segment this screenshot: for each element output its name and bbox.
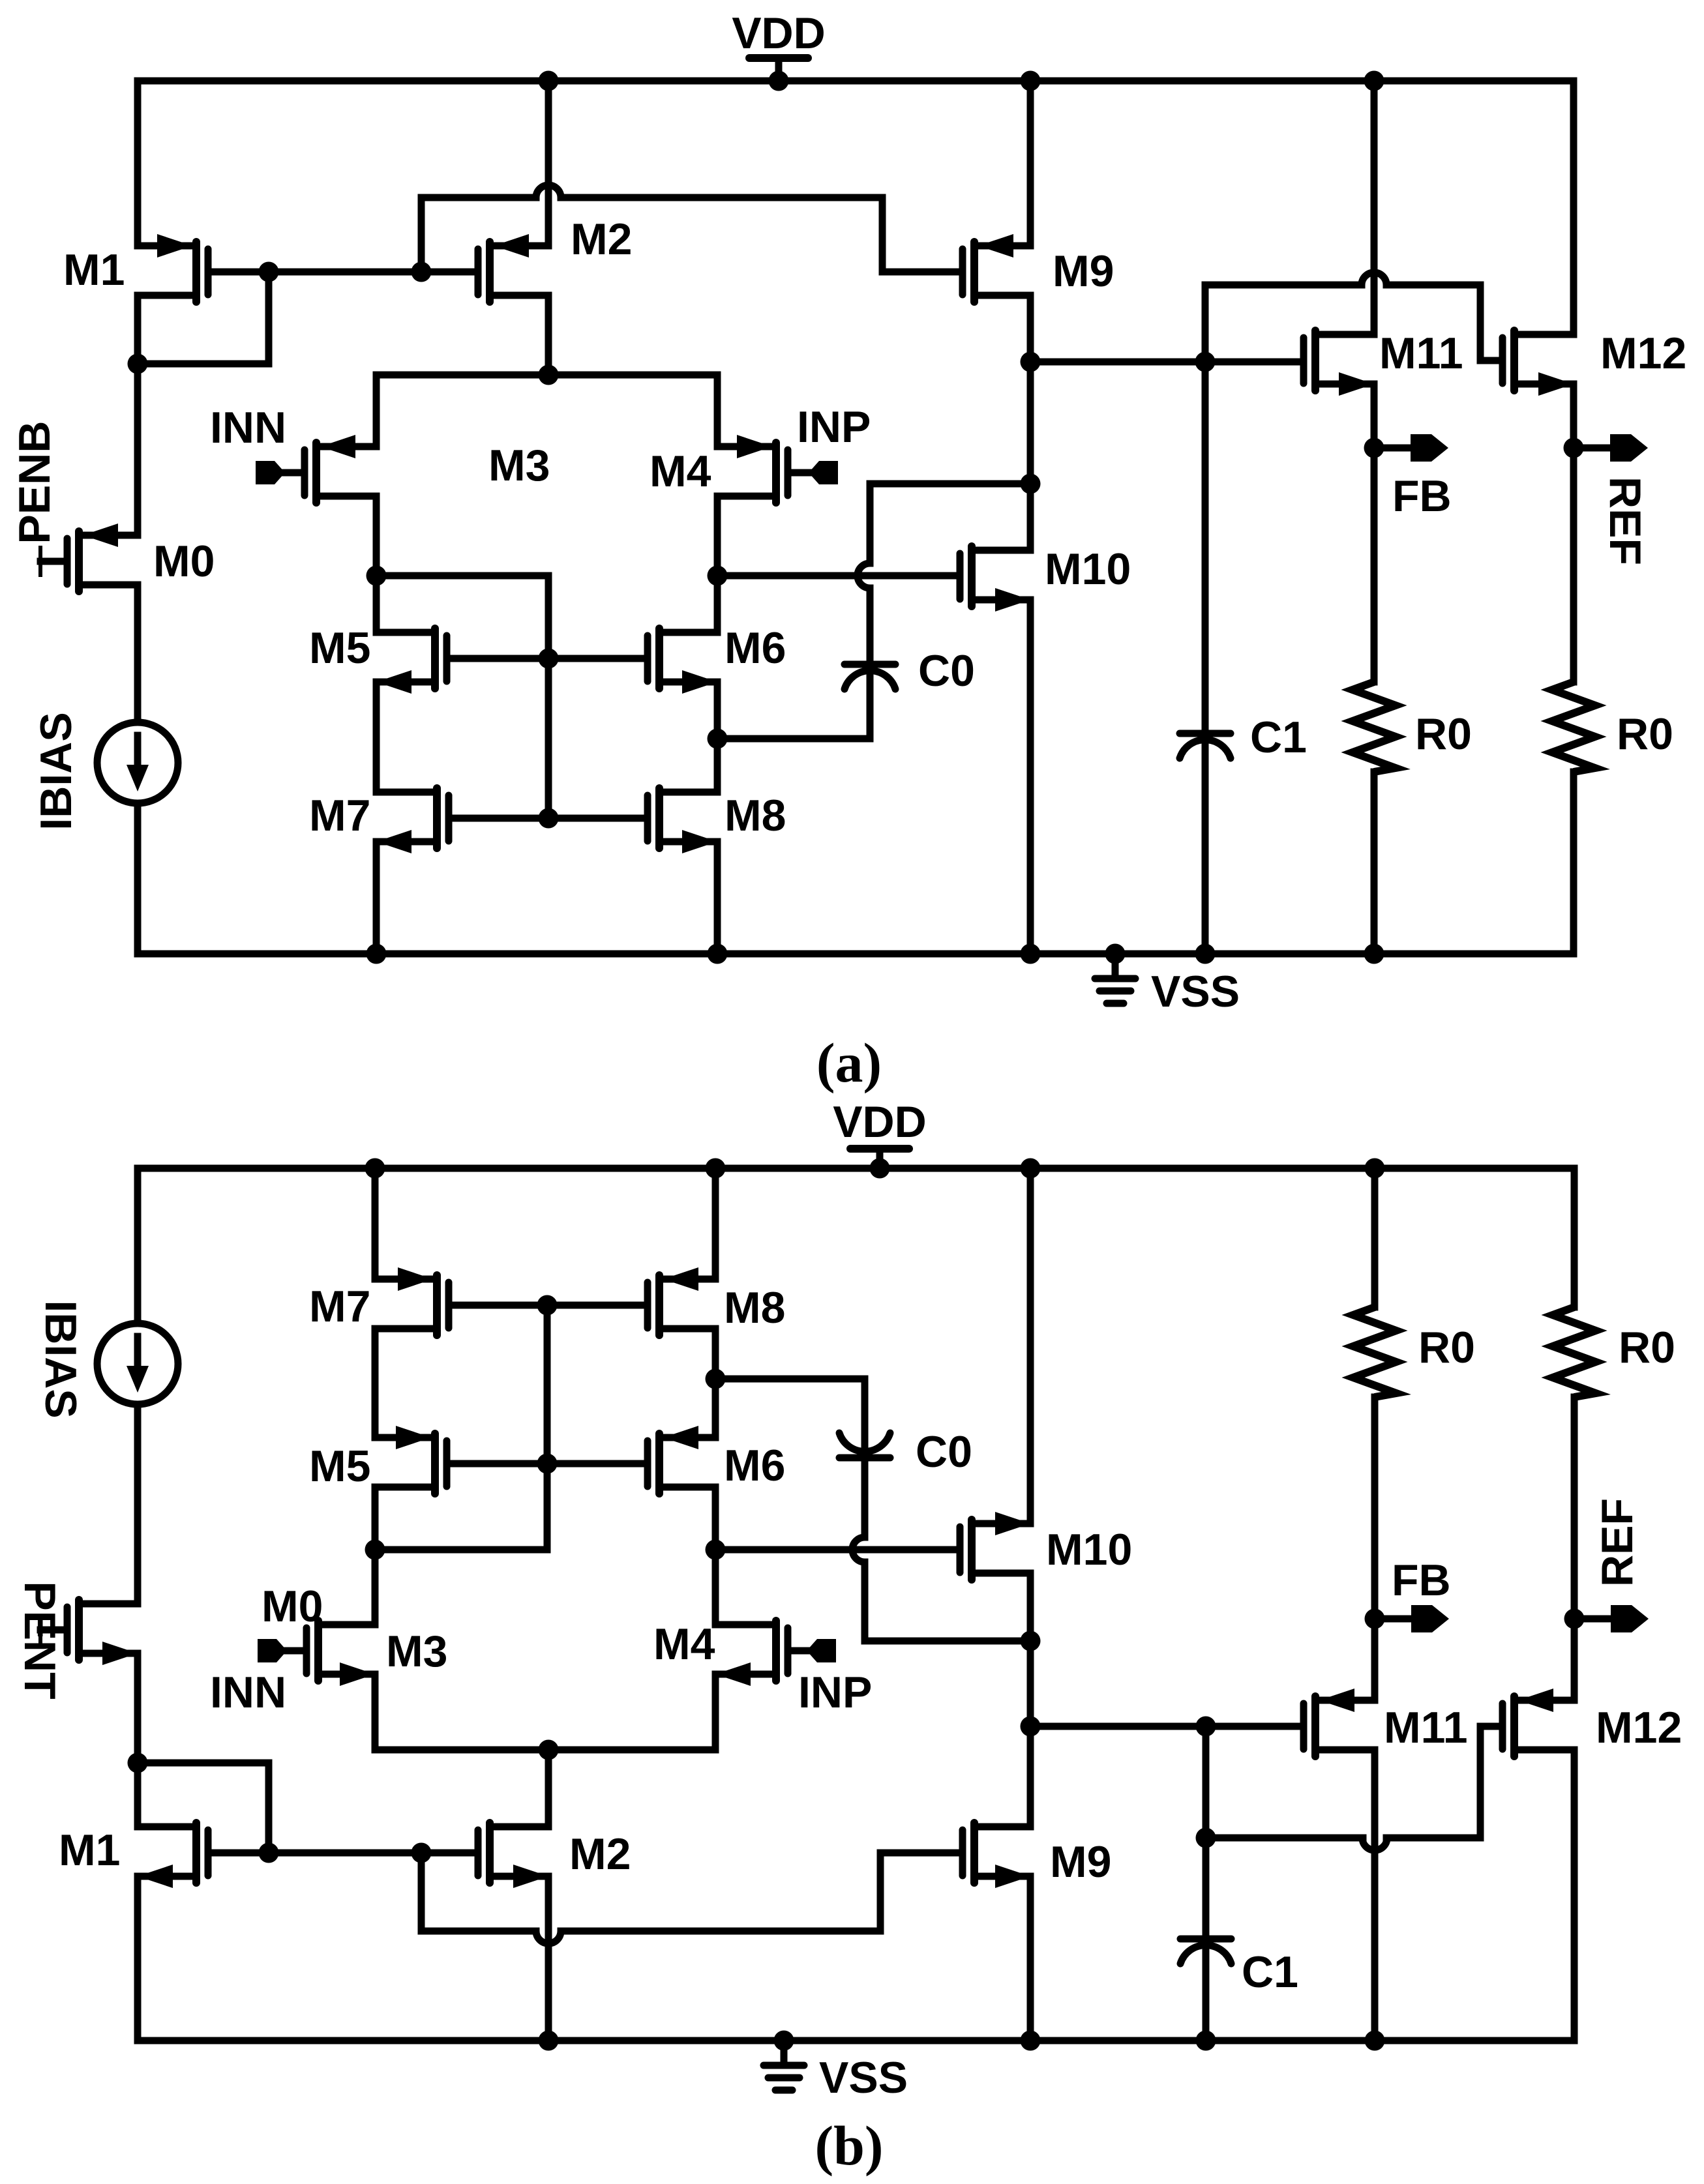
capacitor C1 (b) bottom lead bbox=[1196, 1947, 1216, 2051]
wire M11 drain to VSS (b) bbox=[1365, 1750, 1385, 2051]
wire M7-M8 gate line (b) bbox=[453, 1302, 644, 1309]
node M7-M8 gates (b) bbox=[537, 1295, 558, 1316]
svg-text:R0: R0 bbox=[1619, 1323, 1675, 1372]
svg-text:M11: M11 bbox=[1379, 329, 1463, 378]
svg-text:M0: M0 bbox=[262, 1582, 323, 1631]
wire M0 drain to IBIAS bbox=[134, 585, 142, 722]
node REF (a) bbox=[1564, 438, 1584, 458]
wire M3 drain to M5 drain bbox=[373, 496, 380, 632]
transistor M12 bbox=[1502, 331, 1574, 396]
wire M12 gate run left bbox=[1205, 282, 1362, 289]
svg-text:M3: M3 bbox=[386, 1627, 447, 1676]
node tail bbox=[539, 365, 559, 385]
svg-text:VDD: VDD bbox=[833, 1097, 927, 1147]
label M9 (b) bbox=[1050, 1837, 1111, 1887]
capacitor C1 (a) top lead bbox=[1202, 362, 1209, 730]
wire M10 drain column (b) bbox=[1027, 1573, 1034, 1827]
transistor M11 bbox=[1304, 331, 1374, 396]
resistor R0 REF (a) top lead bbox=[1570, 448, 1577, 682]
wire M7 source from VDD (b) bbox=[365, 1158, 385, 1280]
svg-text:PENB: PENB bbox=[10, 421, 59, 544]
capacitor C1 (a) bbox=[1180, 733, 1231, 758]
pin REF (a) bbox=[1574, 434, 1648, 462]
wire M2 gate stub (b) bbox=[421, 1850, 474, 1857]
wire M4 drain to M6 drain (b) bbox=[712, 1487, 719, 1625]
wire M9 source from VDD bbox=[1021, 71, 1041, 246]
svg-text:M1: M1 bbox=[63, 245, 125, 295]
wire M6 source to M8 drain (b) bbox=[712, 1329, 719, 1438]
svg-text:INP: INP bbox=[798, 1668, 872, 1717]
wire M1 gate (b) bbox=[212, 1850, 269, 1857]
pin FB (b) bbox=[1375, 1605, 1449, 1632]
svg-text:FB: FB bbox=[1392, 471, 1452, 521]
wire M12 source from REF (b) bbox=[1571, 1619, 1578, 1700]
wire hop over M11 drain bbox=[1362, 273, 1386, 285]
resistor R0 FB (b) top lead bbox=[1365, 1158, 1385, 1308]
svg-text:(a): (a) bbox=[816, 1031, 882, 1094]
wire tail line bbox=[376, 372, 717, 379]
label VDD (a) bbox=[732, 8, 826, 58]
label VSS (a) bbox=[1151, 967, 1240, 1016]
wire node A to M11 gate (b) bbox=[1030, 1723, 1300, 1730]
label INN (a) bbox=[210, 403, 286, 452]
svg-text:M4: M4 bbox=[653, 1619, 715, 1669]
transistor M5 bbox=[376, 628, 447, 694]
wire M1 drain to M0 source bbox=[134, 364, 142, 535]
wire gate chain (b) bbox=[544, 1305, 551, 1464]
svg-text:VSS: VSS bbox=[1151, 967, 1240, 1016]
label M10 (b) bbox=[1046, 1525, 1132, 1574]
wire IBIAS to VSS bbox=[134, 803, 142, 954]
wire M3 gate stub bbox=[285, 469, 301, 477]
svg-text:R0: R0 bbox=[1418, 1323, 1475, 1372]
label C0 (a) bbox=[918, 646, 975, 696]
svg-text:VDD: VDD bbox=[732, 8, 826, 58]
wire M2 source to VSS (b) bbox=[539, 1876, 559, 2051]
wire M12 gate stub bbox=[1480, 357, 1499, 364]
wire VDD rail (b) bbox=[138, 1165, 1574, 1172]
transistor M9 (b) bbox=[963, 1823, 1030, 1888]
svg-text:M12: M12 bbox=[1596, 1703, 1682, 1752]
svg-text:M12: M12 bbox=[1600, 329, 1686, 378]
wire hop over M2 source bbox=[536, 185, 561, 198]
wire gate bus M1-M2 (b) bbox=[269, 1850, 421, 1857]
wire gate bus dropper (b) bbox=[418, 1853, 425, 1931]
terminal PENT T-bar bbox=[38, 1616, 42, 1644]
resistor R0 REF (b) bbox=[1553, 1307, 1596, 1397]
wire first-stage jog bbox=[376, 576, 548, 658]
label C1 (a) bbox=[1250, 713, 1307, 762]
label M3 (b) bbox=[386, 1627, 447, 1676]
svg-text:C0: C0 bbox=[916, 1427, 972, 1477]
wire gate bus rise to M9 (b) bbox=[877, 1853, 884, 1931]
label M10 bbox=[1045, 544, 1131, 594]
svg-text:C0: C0 bbox=[918, 646, 975, 696]
capacitor C1 (a) bottom lead bbox=[1195, 742, 1216, 964]
wire M3 source drop (b) bbox=[372, 1674, 379, 1750]
label R0 REF (a) bbox=[1617, 709, 1673, 759]
svg-text:M11: M11 bbox=[1384, 1703, 1468, 1752]
label PENT bbox=[15, 1581, 65, 1699]
svg-text:R0: R0 bbox=[1617, 709, 1673, 759]
label FB (b) bbox=[1392, 1556, 1451, 1605]
node M2 gate bbox=[411, 262, 432, 282]
wire gate bus top run left bbox=[421, 194, 536, 201]
wire gate chain M56-M78 bbox=[545, 658, 552, 818]
wire M10 gate line (b) bbox=[715, 1546, 956, 1554]
svg-text:VSS: VSS bbox=[819, 2053, 908, 2103]
current source IBIAS (a) bbox=[97, 722, 178, 803]
label M8 bbox=[725, 791, 786, 840]
label M7 (b) bbox=[309, 1282, 370, 1331]
label M4 bbox=[650, 447, 711, 496]
terminal PENB T-bar bbox=[38, 548, 42, 575]
node A C1 tap (b) bbox=[1196, 1717, 1216, 1737]
wire M5 source to M7 drain (b) bbox=[372, 1329, 379, 1438]
wire M7 source to VSS bbox=[366, 842, 387, 964]
label M6 bbox=[725, 623, 786, 673]
wire M9 source to VSS (b) bbox=[1021, 1876, 1041, 2051]
wire M2 source from VDD bbox=[539, 71, 559, 246]
wire M10 source from VDD (b) bbox=[1021, 1158, 1041, 1524]
svg-text:M2: M2 bbox=[569, 1829, 631, 1879]
wire M2 gate stub bbox=[421, 269, 474, 276]
svg-text:M6: M6 bbox=[724, 1441, 785, 1490]
wire M5-M6 gate line (b) bbox=[451, 1460, 644, 1468]
wire M9 gate stub bbox=[882, 269, 959, 276]
wire M10 gate line bbox=[717, 572, 956, 580]
wire C0 hop over M10 gate (b) bbox=[852, 1537, 865, 1562]
resistor R0 REF (a) bbox=[1552, 682, 1595, 772]
wire M4 source drop (b) bbox=[712, 1674, 719, 1750]
pin INP (a) bbox=[809, 461, 838, 484]
wire M1 diode loop (b) bbox=[138, 1763, 269, 1853]
transistor M0 bbox=[67, 524, 138, 591]
transistor M11 (b) bbox=[1304, 1689, 1375, 1756]
transistor M9 bbox=[963, 234, 1030, 302]
capacitor C1 (b) top lead bbox=[1203, 1726, 1210, 1935]
wire M6 source to M8 drain bbox=[714, 682, 721, 792]
node M2 gate (b) bbox=[411, 1843, 432, 1863]
svg-text:INP: INP bbox=[797, 402, 871, 452]
pin INP (b) bbox=[807, 1639, 836, 1662]
node M5-M6 gates bbox=[539, 649, 559, 669]
node M1 drain junction bbox=[128, 354, 148, 374]
label REF (a) bbox=[1600, 477, 1650, 565]
wire hop over M2 source (b) bbox=[536, 1931, 561, 1943]
wire M12 gate stub (b) bbox=[1480, 1723, 1501, 1730]
resistor R0 FB (b) bottom lead bbox=[1371, 1397, 1379, 1619]
svg-text:M9: M9 bbox=[1050, 1837, 1111, 1887]
wire M2 drain to tail bbox=[545, 295, 552, 375]
node M3 drain bbox=[366, 566, 387, 586]
svg-text:INN: INN bbox=[210, 403, 286, 452]
label M0 (b) bbox=[262, 1582, 323, 1631]
label M7 bbox=[309, 791, 370, 840]
wire mirror jog (b) bbox=[375, 1464, 547, 1550]
resistor R0 REF (a) bottom lead bbox=[1570, 772, 1577, 954]
transistor M6 (b) bbox=[648, 1426, 715, 1494]
svg-text:M7: M7 bbox=[309, 1282, 370, 1331]
svg-text:M5: M5 bbox=[309, 623, 370, 673]
wire M4 source drop bbox=[714, 375, 721, 447]
wire IBIAS from VDD (b) bbox=[134, 1168, 142, 1323]
label FB (a) bbox=[1392, 471, 1452, 521]
node second stage out bbox=[1021, 352, 1041, 372]
resistor R0 FB (a) top lead bbox=[1371, 448, 1378, 682]
label C0 (b) bbox=[916, 1427, 972, 1477]
transistor M1 (b) bbox=[138, 1823, 208, 1888]
transistor M2 bbox=[478, 234, 548, 302]
wire M12 gate riser bbox=[1202, 285, 1209, 362]
wire M10 source to VSS bbox=[1021, 600, 1041, 964]
wire M4 gate stub bbox=[792, 469, 809, 477]
wire C0 link (b) bbox=[715, 1376, 865, 1383]
transistor M5 (b) bbox=[375, 1426, 447, 1494]
node M6 source / C0 tap bbox=[708, 729, 728, 749]
label INN (b) bbox=[210, 1668, 286, 1717]
capacitor C1 (b) bbox=[1180, 1939, 1231, 1964]
caption (b) bbox=[815, 2114, 883, 2177]
wire M11 source from FB (b) bbox=[1371, 1619, 1379, 1700]
transistor M2 (b) bbox=[478, 1823, 548, 1888]
label M6 (b) bbox=[724, 1441, 785, 1490]
node M1 drain junction (b) bbox=[128, 1753, 148, 1773]
transistor M3 bbox=[305, 435, 376, 503]
caption (a) bbox=[816, 1031, 882, 1094]
wire M1 diode loop bbox=[138, 272, 269, 364]
node M1 gate-drain (b) bbox=[259, 1843, 279, 1863]
node M8 drain / C0 tap (b) bbox=[706, 1369, 726, 1389]
label M5 (b) bbox=[309, 1441, 370, 1491]
node C0 tap (b) bbox=[1021, 1631, 1041, 1651]
transistor M3 (b) bbox=[306, 1621, 375, 1686]
svg-text:PENT: PENT bbox=[15, 1581, 65, 1699]
transistor M7 (b) bbox=[375, 1267, 449, 1335]
wire M1 drain bbox=[134, 295, 142, 364]
svg-text:M10: M10 bbox=[1045, 544, 1131, 594]
svg-text:REF: REF bbox=[1592, 1498, 1642, 1587]
label R0 REF (b) bbox=[1619, 1323, 1675, 1372]
svg-text:REF: REF bbox=[1600, 477, 1650, 565]
wire M7-M8 gate line bbox=[453, 815, 644, 822]
wire C0 hop over M10 gate bbox=[858, 563, 870, 588]
node FB (a) bbox=[1364, 438, 1384, 458]
wire M1 gate bbox=[212, 269, 269, 276]
svg-text:M0: M0 bbox=[153, 537, 215, 586]
wire M11 drain from VDD bbox=[1364, 71, 1384, 335]
svg-text:INN: INN bbox=[210, 1668, 286, 1717]
wire M12 gate run left (b) bbox=[1206, 1835, 1363, 1842]
svg-text:M9: M9 bbox=[1053, 246, 1114, 296]
node M1 gate-drain bbox=[259, 262, 279, 282]
wire M0 gate stub bbox=[40, 558, 63, 565]
pin FB (a) bbox=[1374, 434, 1448, 462]
pin INN (b) bbox=[258, 1639, 287, 1662]
label M2 (b) bbox=[569, 1829, 631, 1879]
label INP (a) bbox=[797, 402, 871, 452]
node second stage out (b) bbox=[1021, 1717, 1041, 1737]
wire M9 drain column bbox=[1027, 295, 1034, 550]
label M1 (b) bbox=[59, 1825, 120, 1875]
capacitor C0 (b) top lead bbox=[861, 1379, 869, 1447]
wire M5 source to M7 drain bbox=[373, 682, 380, 792]
wire VDD rail (a) bbox=[138, 78, 1574, 85]
svg-text:M10: M10 bbox=[1046, 1525, 1132, 1574]
wire tail line (b) bbox=[375, 1747, 715, 1754]
svg-text:M5: M5 bbox=[309, 1441, 370, 1491]
wire gate bus riser bbox=[418, 198, 425, 272]
wire M8 source to VSS bbox=[708, 842, 728, 964]
power VDD symbol (a) bbox=[749, 58, 808, 91]
svg-text:C1: C1 bbox=[1242, 1947, 1298, 1997]
wire gate bus top run right bbox=[561, 194, 882, 201]
current source IBIAS (b) bbox=[97, 1323, 178, 1404]
label M1 bbox=[63, 245, 125, 295]
svg-text:M3: M3 bbox=[488, 441, 550, 490]
label C1 (b) bbox=[1242, 1947, 1298, 1997]
wire M12 drain to VSS (b) bbox=[1571, 1750, 1578, 2041]
label IBIAS (b) bbox=[36, 1300, 85, 1418]
capacitor C0 (b) bbox=[839, 1433, 890, 1458]
wire M0 gate stub (b) bbox=[40, 1627, 63, 1634]
wire M3 gate stub (b) bbox=[287, 1647, 303, 1655]
svg-text:M4: M4 bbox=[650, 447, 711, 496]
label REF (b) bbox=[1592, 1498, 1642, 1587]
capacitor C0 (b) lower lead bbox=[861, 1462, 869, 1537]
svg-text:M6: M6 bbox=[725, 623, 786, 673]
transistor M1 bbox=[138, 234, 208, 302]
capacitor C0 (a) top lead bbox=[867, 484, 874, 563]
node M5-M6 gates (b) bbox=[537, 1454, 558, 1474]
wire M12 drain from VDD bbox=[1570, 81, 1577, 334]
wire M3 drain to M5 drain (b) bbox=[372, 1487, 379, 1625]
transistor M4 (b) bbox=[715, 1621, 788, 1686]
node M4 drain / M10 gate bbox=[708, 566, 728, 586]
wire gate bus drop to M9 bbox=[879, 198, 886, 272]
wire M3 source drop bbox=[373, 375, 380, 447]
label M4 (b) bbox=[653, 1619, 715, 1669]
wire hop over M11 drain (b) bbox=[1362, 1838, 1387, 1850]
wire M12 gate run right bbox=[1386, 282, 1480, 289]
wire M12 source to REF bbox=[1570, 384, 1577, 448]
transistor M8 (b) bbox=[648, 1267, 715, 1335]
label M3 bbox=[488, 441, 550, 490]
transistor M10 bbox=[960, 546, 1030, 612]
node tail (b) bbox=[539, 1740, 559, 1760]
label R0 FB (a) bbox=[1415, 709, 1472, 759]
wire IBIAS to M0 (b) bbox=[134, 1404, 142, 1604]
transistor M6 bbox=[648, 628, 717, 694]
capacitor C0 (b) lead2 bbox=[861, 1562, 869, 1641]
node REF (b) bbox=[1564, 1609, 1585, 1629]
ground symbol (b) bbox=[764, 2031, 804, 2091]
svg-text:M1: M1 bbox=[59, 1825, 120, 1875]
transistor M7 bbox=[376, 788, 449, 853]
node M3 drain (b) bbox=[365, 1540, 385, 1560]
wire gate bus M1-M2 bbox=[269, 269, 421, 276]
wire VSS rail (b) bbox=[138, 2037, 1574, 2044]
node M4 drain / M10 gate (b) bbox=[706, 1540, 726, 1560]
capacitor C0 (a) bottom lead bbox=[717, 673, 870, 739]
transistor M10 (b) bbox=[960, 1512, 1030, 1580]
transistor M8 bbox=[648, 788, 717, 853]
resistor R0 FB (a) bbox=[1353, 682, 1396, 772]
label M11 bbox=[1379, 329, 1463, 378]
wire M11 source to FB bbox=[1371, 384, 1378, 448]
transistor M0 (b) bbox=[67, 1600, 138, 1665]
transistor M4 bbox=[717, 435, 788, 503]
svg-text:IBIAS: IBIAS bbox=[36, 1300, 85, 1418]
wire VSS rail (a) bbox=[138, 951, 1574, 958]
svg-text:C1: C1 bbox=[1250, 713, 1307, 762]
pin REF (b) bbox=[1574, 1605, 1649, 1632]
wire M12 gate run right (b) bbox=[1386, 1835, 1480, 1842]
wire M8 source from VDD (b) bbox=[706, 1158, 726, 1280]
wire node A to M11 gate bbox=[1030, 359, 1299, 366]
wire M4 gate stub (b) bbox=[792, 1647, 807, 1655]
wire C0 top link bbox=[870, 480, 1030, 488]
capacitor C0 (a) lead2 bbox=[867, 588, 874, 661]
label R0 FB (b) bbox=[1418, 1323, 1475, 1372]
svg-text:FB: FB bbox=[1392, 1556, 1451, 1605]
wire M2 drain to tail (b) bbox=[545, 1750, 552, 1827]
svg-text:R0: R0 bbox=[1415, 709, 1472, 759]
resistor R0 REF (b) top lead bbox=[1571, 1168, 1578, 1307]
label VDD (b) bbox=[833, 1097, 927, 1147]
node C0 tap bbox=[1021, 474, 1041, 494]
label M11 (b) bbox=[1384, 1703, 1468, 1752]
svg-text:M7: M7 bbox=[309, 791, 370, 840]
node M7-M8 gates bbox=[539, 808, 559, 829]
node A C1 tap bbox=[1195, 352, 1216, 372]
label PENB bbox=[10, 421, 59, 544]
label M5 bbox=[309, 623, 370, 673]
wire M5-M6 gate line bbox=[451, 655, 644, 662]
wire M1 source column from VDD bbox=[134, 81, 142, 246]
label IBIAS (a) bbox=[31, 712, 81, 830]
node FB (b) bbox=[1365, 1609, 1385, 1629]
resistor R0 FB (a) bottom lead bbox=[1364, 772, 1384, 964]
svg-text:M8: M8 bbox=[724, 1283, 785, 1333]
pin INN (a) bbox=[256, 461, 285, 484]
wire M12 gate drop (b) bbox=[1477, 1726, 1484, 1838]
node M12 gate tap (b) bbox=[1196, 1828, 1216, 1848]
power VDD symbol (b) bbox=[850, 1149, 909, 1179]
ground symbol (a) bbox=[1095, 944, 1135, 1004]
label VSS (b) bbox=[819, 2053, 908, 2103]
label M0 bbox=[153, 537, 215, 586]
resistor R0 REF (b) bottom lead bbox=[1571, 1397, 1578, 1619]
svg-text:M8: M8 bbox=[725, 791, 786, 840]
svg-text:(b): (b) bbox=[815, 2114, 883, 2177]
capacitor C0 (a) bbox=[845, 664, 895, 689]
label M8 (b) bbox=[724, 1283, 785, 1333]
label M2 bbox=[571, 214, 632, 264]
transistor M12 (b) bbox=[1502, 1689, 1574, 1756]
wire M4 drain to M6 drain bbox=[714, 496, 721, 632]
wire M0 source to M1 node (b) bbox=[134, 1653, 142, 1827]
label M12 (b) bbox=[1596, 1703, 1682, 1752]
label M12 bbox=[1600, 329, 1686, 378]
wire M1 source to VSS (b) bbox=[134, 1876, 142, 2041]
label INP (b) bbox=[798, 1668, 872, 1717]
wire C0 bottom link (b) bbox=[865, 1638, 1030, 1645]
svg-text:IBIAS: IBIAS bbox=[31, 712, 81, 830]
resistor R0 FB (b) bbox=[1353, 1307, 1396, 1397]
wire gate bus bottom right (b) bbox=[561, 1928, 880, 1935]
svg-text:M2: M2 bbox=[571, 214, 632, 264]
